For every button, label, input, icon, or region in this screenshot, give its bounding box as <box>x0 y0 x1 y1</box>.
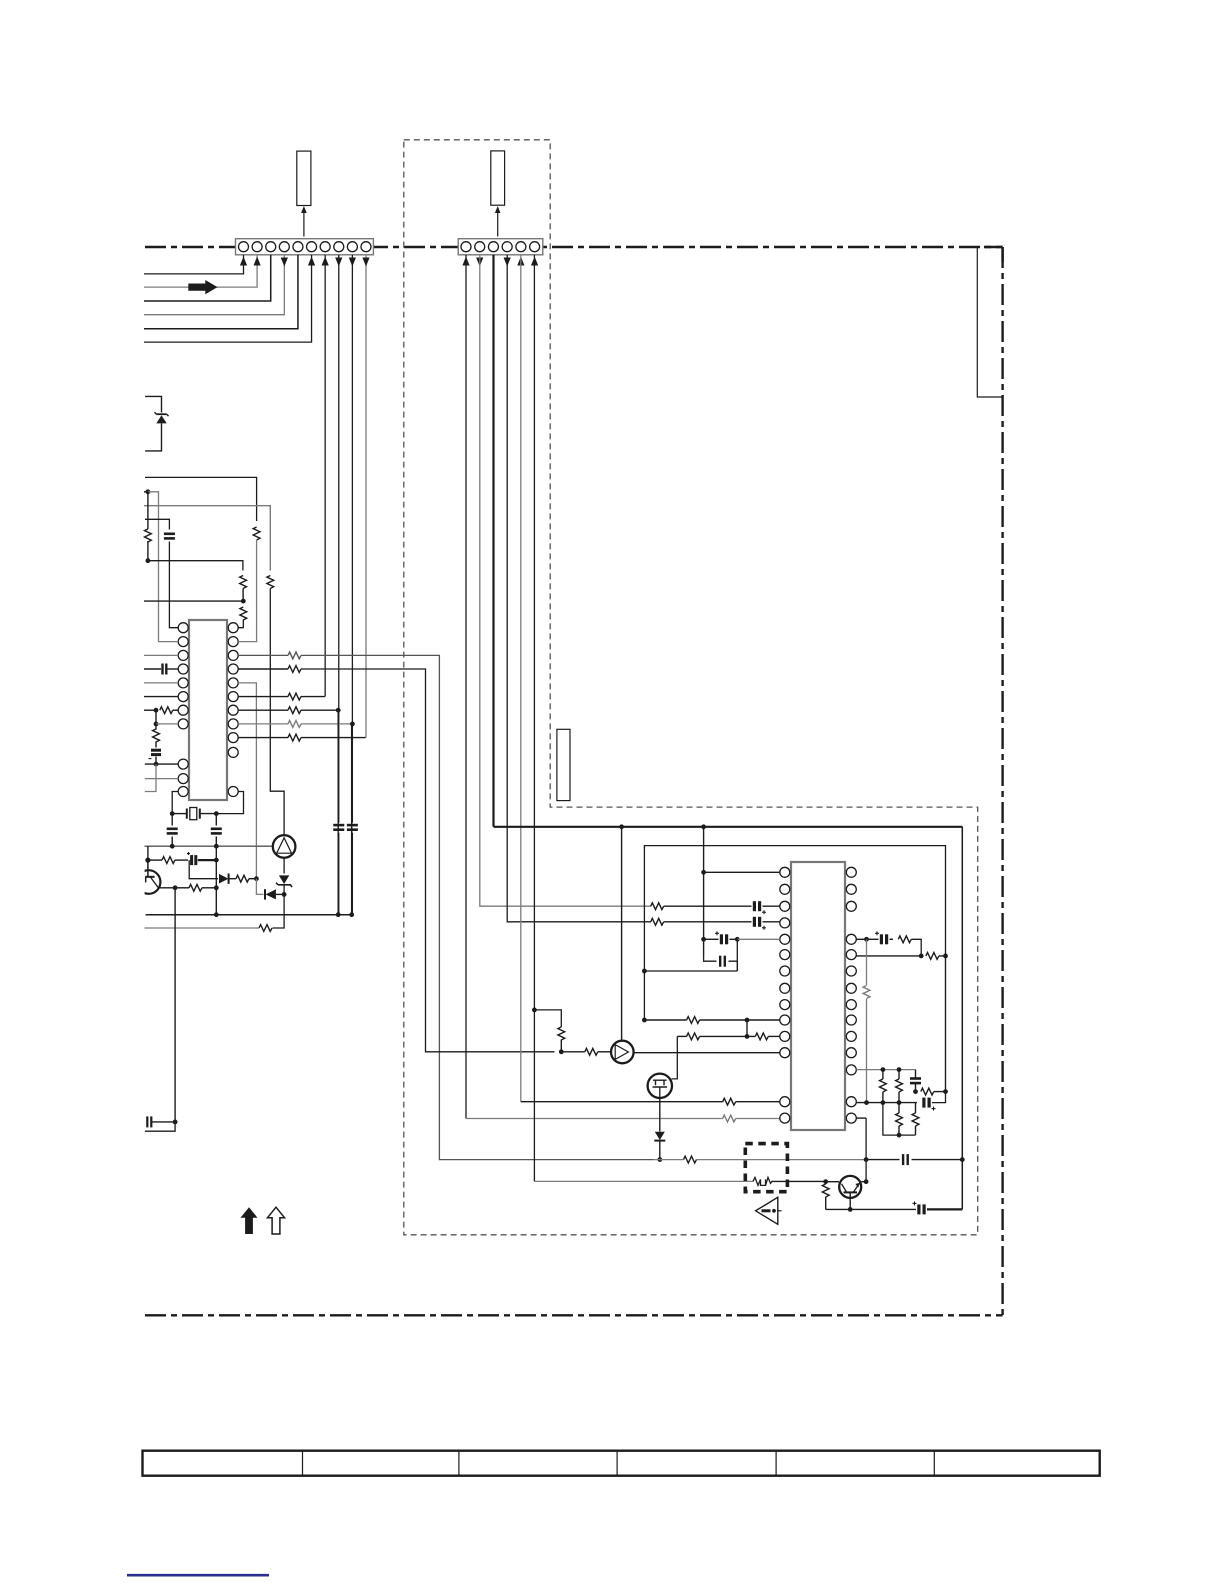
wire C17 leads <box>915 1070 917 1078</box>
wire row 971 <box>644 970 737 972</box>
wire bottom rail 1135 <box>883 1103 916 1136</box>
resistor R10 <box>288 693 301 700</box>
wire R16 to vert <box>202 887 216 889</box>
wire row 1036 segs <box>677 1035 686 1037</box>
node dot E <box>154 722 159 727</box>
wire stub row 519.3 <box>145 519 169 529</box>
wire Q2 emitter <box>849 1192 851 1209</box>
resistor R5 <box>240 607 247 620</box>
connector J1 pin 4 <box>279 242 289 252</box>
wire J to C5 <box>215 814 217 826</box>
diode D5 <box>655 1132 665 1140</box>
wire P down to row 928 <box>273 894 285 928</box>
resistor R38 <box>912 1113 919 1126</box>
resistor R33 <box>863 986 870 999</box>
resistor R17 <box>259 925 272 932</box>
wire R30 top <box>825 1182 827 1184</box>
node dot BF2 <box>864 1100 869 1105</box>
capacitor C14 <box>902 1154 904 1165</box>
IC U2 right pin circle 5 <box>846 950 856 960</box>
wire row 601.1 <box>144 600 243 602</box>
node dot Rn <box>214 885 219 890</box>
label box small <box>557 729 570 800</box>
wire row 696.6 to J1 pin7 <box>301 696 325 698</box>
signal flow arrow <box>188 280 217 294</box>
wire J1 pin8 vertical <box>338 255 340 823</box>
solid up arrow <box>241 1207 258 1234</box>
resistor R29 <box>684 1156 697 1163</box>
wire row1159 right <box>866 1159 899 1161</box>
capacitor C4 <box>167 827 178 830</box>
wire M row <box>148 859 162 861</box>
connector J1 pin 10 <box>361 242 371 252</box>
wire A2 out to U2 pin12L <box>634 1052 780 1054</box>
arrowhead out of J1 pin10 <box>362 258 369 267</box>
resistor R30 <box>822 1184 829 1197</box>
capacitor on pin9 line <box>347 824 358 827</box>
resistor R37 <box>896 1113 903 1126</box>
node dot BG <box>897 1100 902 1105</box>
capacitor C2 <box>161 664 163 675</box>
wire U1 left pin3 row <box>144 654 178 656</box>
crystal X1 <box>186 809 188 819</box>
wire J2 pin6 vertical <box>533 255 535 1182</box>
wire gate drop <box>672 1036 678 1079</box>
IC U2 left pin 2 <box>780 884 790 894</box>
wire R14 to C6 <box>175 859 188 861</box>
node dot AI <box>823 1179 828 1184</box>
node dot C <box>241 599 246 604</box>
node dot AF <box>657 1157 662 1162</box>
wire U1 left pin4 leads <box>144 668 161 670</box>
resistor R2 on grey drop <box>267 576 274 589</box>
wire J2 pin4 vertical <box>507 255 651 922</box>
capacitor C7 <box>146 1116 148 1127</box>
wire U1 left pin11 to crystal <box>172 792 178 814</box>
IC U2 left pin 12 <box>780 1048 790 1058</box>
wire pin6 tap to R chain <box>534 1010 561 1027</box>
IC U2 left pin 10 <box>780 1015 790 1025</box>
wire node F drop to edge <box>145 764 156 791</box>
resistor R28 <box>755 1033 768 1040</box>
wire row922 segs <box>664 921 752 923</box>
resistor R12 <box>288 721 301 728</box>
wire R7 to C3 <box>155 742 157 748</box>
IC U2 left pin 6 <box>780 950 790 960</box>
IC U2 left pin 5 <box>780 934 790 944</box>
IC U1 left pin 8 <box>178 719 188 729</box>
blue footer line <box>127 1574 269 1577</box>
connector J2 pin 6 <box>530 242 540 252</box>
wire R31 to corner <box>911 939 921 956</box>
IC U1 left pin 6 <box>178 692 188 702</box>
node dot BJ <box>897 1133 902 1138</box>
wire U1 right pin5 drop <box>238 683 256 879</box>
wire row 710.2 to pin8 line <box>301 709 338 711</box>
IC U2 left pin 7 <box>780 966 790 976</box>
connector J1 pin 6 <box>307 242 317 252</box>
wire pin8 line lower <box>337 710 339 915</box>
resistor R24 <box>723 1098 736 1105</box>
wire R20 to row 1052 <box>560 1040 562 1052</box>
IC U2 right pin circle 1 <box>846 867 856 877</box>
wire crystal row <box>172 813 187 815</box>
IC U2 right pin circle 2 <box>846 884 856 894</box>
node dot Q <box>173 885 178 890</box>
wire U2 pin1L row <box>704 871 780 873</box>
wire R34 leads <box>882 1070 884 1079</box>
wire U2 pin13R row <box>856 1102 917 1104</box>
arrowhead into J1 pin2 <box>254 257 261 266</box>
node dot AG <box>864 1157 869 1162</box>
IC U1 left pin 4 <box>178 664 188 674</box>
node dot AJ <box>864 1179 869 1184</box>
IC U2 left pin 8 <box>780 983 790 993</box>
wire J2 pin5 vertical <box>520 255 522 1102</box>
zener diode D1 <box>145 396 161 412</box>
node dot AD <box>745 1018 750 1023</box>
resistor R27 <box>687 1033 700 1040</box>
IC U2 right pin circle 3 <box>846 901 856 911</box>
wire node D down <box>155 710 157 724</box>
wire right frame vertical <box>961 827 963 1210</box>
IC U2 right pin circle 6 <box>846 966 856 976</box>
label box above J1 <box>297 151 311 205</box>
arrowhead out of J1 pin8 <box>335 258 342 267</box>
wire V to R23 <box>561 1051 585 1053</box>
node dot B <box>146 558 151 563</box>
arrowhead into J2 pin1 <box>462 257 469 266</box>
resistor R26 <box>687 1017 700 1024</box>
capacitor C13 <box>719 956 721 967</box>
resistor R3 <box>145 529 152 542</box>
wire C1 to U1 left pin1 <box>169 542 178 628</box>
wire R6 to pin7 <box>173 709 178 711</box>
wire C6 branch down <box>189 860 218 879</box>
wire J2 pin2 vertical <box>480 255 651 906</box>
arrowhead out of J1 pin9 <box>349 258 356 267</box>
wire C12 leads <box>704 938 719 940</box>
wire U1 right pin4 row <box>238 668 288 670</box>
electrolytic C11 <box>753 917 756 927</box>
wire D2 to R15 <box>229 878 236 880</box>
node dot J <box>214 811 219 816</box>
IC U1 right pin circle r10 <box>228 747 238 757</box>
IC U1 left pin 11 <box>178 787 188 797</box>
wire row 477 to R chain <box>145 477 257 521</box>
wire Q2 collector <box>861 1118 866 1182</box>
IC U2 body <box>791 862 845 1130</box>
wire row 723.9 to pin9 line <box>301 723 352 725</box>
resistor R16 <box>189 884 202 891</box>
connector J1 pin 2 <box>252 242 262 252</box>
node dot L <box>214 844 219 849</box>
wire row 1209 segs <box>826 1208 916 1210</box>
IC U1 right pin circle r11 <box>228 787 238 797</box>
wire C7 return <box>145 1122 175 1131</box>
wire D5 to row 1159.6 <box>659 1141 661 1160</box>
wire R32 to 945 vert <box>939 955 946 957</box>
node dot W <box>619 824 624 829</box>
wire ground bus row 846 <box>145 845 273 847</box>
arrowhead into J2 pin5 <box>517 257 524 266</box>
wire R35 leads <box>898 1070 900 1079</box>
wire J1 pin10 vertical <box>365 255 367 738</box>
page border top (dash-dot) <box>145 246 1003 248</box>
wire row1159 segs <box>653 1159 684 1161</box>
wire 945 vertical lower <box>945 956 947 1092</box>
wire R25 to U2 pin14L <box>736 1118 780 1120</box>
node dot BI <box>943 1089 948 1094</box>
IC U2 right pin circle 12 <box>846 1065 856 1075</box>
wire J1 pin3 row <box>144 255 271 301</box>
resistor R4 <box>240 576 247 589</box>
connector J2 pin 2 <box>475 242 485 252</box>
IC U1 right pin circle r6 <box>228 692 238 702</box>
arrowhead out of J2 pin4 <box>504 258 511 267</box>
electrolytic C6 <box>190 855 193 865</box>
node dot AK <box>848 1207 853 1212</box>
resistor R6 <box>160 707 173 714</box>
amplifier A2 <box>611 1041 634 1064</box>
wire A2 top feed <box>621 827 623 1041</box>
wire C13 loop <box>704 957 717 962</box>
IC U1 right pin circle r7 <box>228 705 238 715</box>
wire pin5 line to D3 <box>256 879 263 895</box>
IC U1 left pin 1 <box>178 623 188 633</box>
resistor R32 <box>926 953 939 960</box>
node dot AC <box>642 1018 647 1023</box>
warning triangle <box>756 1197 778 1224</box>
wire C16 leads <box>867 938 879 940</box>
node dot BD <box>881 1067 886 1072</box>
IC U2 left pin 9 <box>780 1000 790 1010</box>
node dot AE <box>745 1034 750 1039</box>
wire Q3 source down <box>659 1098 661 1132</box>
wire I to C4 <box>171 814 173 826</box>
wire U1 right pin3 row <box>238 654 288 656</box>
arrowhead into J1 pin7 <box>322 257 329 266</box>
wire R37 leads <box>898 1103 900 1113</box>
wire bus row 845 <box>644 846 945 1020</box>
wire node E down <box>155 724 157 730</box>
wire R33 to row1102 <box>866 999 868 1103</box>
connector J2 pin 5 <box>516 242 526 252</box>
IC U2 right pin circle 4 <box>846 934 856 944</box>
IC U2 right pin circle 8 <box>846 1000 856 1010</box>
IC U2 left pin 14 <box>780 1113 790 1123</box>
IC U1 right pin circle r8 <box>228 719 238 729</box>
wire M up <box>147 846 149 860</box>
wire U1 left pin7 row <box>144 709 156 711</box>
transistor Q1 <box>137 870 161 894</box>
wire J2 pin1 vertical <box>465 255 467 1119</box>
wire J1 pin1 row <box>144 255 244 274</box>
IC U2 right pin circle 11 <box>846 1048 856 1058</box>
page border right (dash-dot) <box>1001 247 1003 1315</box>
wire R30 bottom to row 1209 <box>825 1197 827 1209</box>
node dot BA <box>864 937 869 942</box>
wire row 560.7 <box>148 561 243 571</box>
resistor R1 <box>253 527 260 540</box>
wire vertical 703.6 <box>703 827 705 957</box>
resistor R36 <box>921 1088 934 1095</box>
electrolytic C18 <box>922 1098 925 1108</box>
node dot M <box>145 858 150 863</box>
IC U1 left pin 2 <box>178 637 188 647</box>
arrowhead into J2 pin6 <box>531 257 538 266</box>
connector J2 pin 4 <box>502 242 512 252</box>
IC U2 right pin circle 9 <box>846 1015 856 1025</box>
wire J1 pin2 row <box>144 255 257 287</box>
wire R15 to pin5 line <box>249 878 256 880</box>
connector J1 pin 7 <box>320 242 330 252</box>
wire grey drop to amp top <box>270 589 284 836</box>
wire C3 to node F <box>155 757 157 765</box>
wire U2 pin14R stub <box>856 1117 866 1119</box>
resistor R15 <box>236 875 249 882</box>
diode D3 <box>264 889 266 899</box>
node dot AA <box>735 937 740 942</box>
IC U2 left pin 4 <box>780 918 790 928</box>
wire R36 to BC2 <box>934 1091 946 1093</box>
arrowhead into J1 pin6 <box>308 257 315 266</box>
wire row1181 segs <box>773 1180 826 1182</box>
wire Q to R16 <box>175 887 189 889</box>
node dot F <box>154 762 159 767</box>
corner tab rectangle <box>977 247 1002 397</box>
node dot D <box>154 708 159 713</box>
node dot AH <box>960 1157 965 1162</box>
capacitor C5 <box>211 827 222 830</box>
IC U1 body <box>189 620 227 800</box>
wire row 1181 left <box>534 1180 753 1182</box>
wire C4 to row846 <box>171 837 173 847</box>
arrowhead into J1 pin1 <box>240 257 247 266</box>
wire R1 to U1 right pin2 <box>238 540 256 642</box>
wire U1 right pin6 row <box>238 696 288 698</box>
MOSFET Q3 <box>648 1074 672 1098</box>
wire J1 pin5 row <box>144 255 298 329</box>
wire 747 link <box>746 1020 748 1036</box>
node dot X <box>701 824 706 829</box>
node dot I <box>170 811 175 816</box>
wire node A to R3 <box>147 492 149 529</box>
wire C7 to U <box>151 1121 175 1123</box>
electrolytic C3 <box>151 749 161 752</box>
resistor R22 <box>651 918 664 925</box>
IC U2 right pin circle 13 <box>846 1097 856 1107</box>
wire row 1118 left <box>466 1118 723 1120</box>
wire long vertical 175 <box>174 888 176 1122</box>
capacitor C17 <box>910 1077 921 1080</box>
wire J2 pin3 vertical (thick) <box>492 255 494 827</box>
wire U1 left pin9 row <box>145 763 178 765</box>
IC U2 left pin 11 <box>780 1031 790 1041</box>
capacitor C1 <box>164 532 175 535</box>
wire U2 pin4R row <box>856 938 866 940</box>
node dot H <box>350 722 355 727</box>
wire row 928 to edge <box>145 927 260 929</box>
node dot Z <box>701 937 706 942</box>
wire R5 to U1 right pin1 <box>238 620 243 628</box>
wire stub left of node A <box>144 491 148 493</box>
grey bus row 505.7 <box>144 506 270 571</box>
resistor R25 <box>723 1115 736 1122</box>
node dot N <box>214 858 219 863</box>
wire U1 right pin7 row <box>238 709 288 711</box>
arrow J1 to label box <box>303 209 305 237</box>
node dot U <box>173 1120 178 1125</box>
wire U1 right pin9 row <box>238 737 288 739</box>
wire row 669 to drop <box>301 669 555 1052</box>
node dot BE <box>897 1067 902 1072</box>
resistor R31 <box>898 936 911 943</box>
resistor R13 <box>288 734 301 741</box>
wire C18 to up corner <box>932 1092 946 1103</box>
node dot O <box>254 876 259 881</box>
wire U1 right pin8 row <box>238 723 288 725</box>
connector J2 body <box>458 239 543 255</box>
wire row1101 gap fix <box>722 1101 725 1103</box>
resistor R34 <box>880 1079 887 1092</box>
IC U2 left pin 3 <box>780 901 790 911</box>
node dot Y <box>701 870 706 875</box>
IC U1 right pin circle r2 <box>228 637 238 647</box>
IC U1 right pin circle r1 <box>228 623 238 633</box>
arrowhead out of J2 pin2 <box>476 258 483 267</box>
wire row 1020 segs <box>644 1019 686 1021</box>
electrolytic C15 <box>917 1204 920 1214</box>
wire Q1 emitter row <box>158 887 175 889</box>
resistor R11 <box>288 707 301 714</box>
wire U2 pin12R row <box>856 1069 915 1071</box>
IC U1 right pin circle r9 <box>228 733 238 743</box>
resistor R9 <box>288 666 301 673</box>
IC U2 left pin 1 <box>780 867 790 877</box>
arrow J2 to label box <box>497 209 499 237</box>
wire C6 to node N <box>198 859 217 861</box>
IC U1 right pin circle r5 <box>228 678 238 688</box>
wire bus row 827 (thick) <box>494 826 963 828</box>
node dot on pin6 line <box>532 1008 537 1013</box>
diode D2 <box>219 874 228 884</box>
IC U1 left pin 3 <box>178 650 188 660</box>
wire J1 pin4 row <box>144 255 284 315</box>
wire D3 to node P <box>276 893 284 895</box>
node dot V <box>559 1049 564 1054</box>
electrolytic C16 <box>880 934 883 944</box>
wire vertical 216 link <box>215 846 217 915</box>
connector J1 pin 5 <box>293 242 303 252</box>
resistor R23 <box>585 1048 598 1055</box>
node dot BH <box>913 1089 918 1094</box>
connector J1 pin 1 <box>239 242 249 252</box>
connector J1 body <box>236 239 374 255</box>
IC U1 left pin 9 <box>178 759 188 769</box>
resistor R8 <box>288 652 301 659</box>
node dot BF <box>881 1100 886 1105</box>
node dot T <box>336 912 341 917</box>
wire U1 left pin10 row <box>145 778 178 780</box>
wire R3 to node B <box>147 541 149 561</box>
node dot BC <box>943 954 948 959</box>
wire U1 left pin6 row <box>144 696 178 698</box>
IC U2 right pin circle 7 <box>846 983 856 993</box>
wire pin5L row <box>737 938 780 940</box>
node dot G <box>336 708 341 713</box>
wire R4 to node C <box>242 589 244 602</box>
